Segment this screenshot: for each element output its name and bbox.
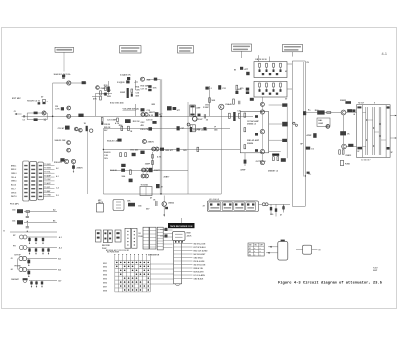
- svg-text:C60: C60: [270, 214, 273, 216]
- transistor Q17: [260, 129, 264, 133]
- marks below Q23: [165, 207, 168, 209]
- wire ladder2 to bus: [287, 88, 292, 90]
- svg-text:MON B-GRY: MON B-GRY: [194, 271, 205, 273]
- tall rect top edge y61: [292, 60, 305, 62]
- svg-text:o: o: [254, 248, 255, 250]
- ferrite bead blob: [82, 81, 86, 84]
- svg-text:30: 30: [206, 119, 209, 121]
- tall rect inner line x303.4: [302, 62, 304, 177]
- svg-text:47MF: 47MF: [306, 134, 312, 137]
- transistor Q4c: [67, 148, 71, 152]
- blob row y128: [148, 127, 152, 130]
- svg-text:S2: S2: [138, 233, 140, 235]
- svg-text:1K: 1K: [109, 90, 112, 92]
- svg-text:SU4-30 10K: SU4-30 10K: [55, 139, 67, 142]
- stub Q23 to black box: [181, 218, 183, 223]
- bat row wire: [29, 280, 57, 282]
- transistor Q5a top: [141, 77, 145, 81]
- wire bridge bottom branch: [27, 119, 47, 121]
- transistor Q18: [260, 149, 264, 153]
- ladder2 inner bottom bars: [262, 93, 264, 95]
- components x235 top: [236, 85, 238, 90]
- svg-text:REC OUT A-RED: REC OUT A-RED: [194, 249, 209, 252]
- capacitor C34: [203, 114, 205, 118]
- svg-text:2SB: 2SB: [107, 96, 111, 98]
- svg-text:CAR BAT: CAR BAT: [11, 278, 20, 281]
- wire x343 vertical: [343, 115, 345, 144]
- svg-text:4.7K: 4.7K: [157, 156, 162, 159]
- svg-text:1K5: 1K5: [183, 150, 188, 152]
- small circle junction x188: [187, 123, 190, 126]
- ladder1 inner bottom bars: [262, 73, 264, 75]
- AF interior comps near Q18: [255, 149, 258, 152]
- module 1: [209, 202, 221, 211]
- battery pin 1: [268, 246, 278, 248]
- svg-text:PHONE: PHONE: [15, 265, 22, 267]
- connector J2 row 4: [174, 253, 182, 255]
- svg-text:6V: 6V: [285, 71, 288, 73]
- comp top mic amp: [127, 77, 130, 80]
- svg-text:50V: 50V: [104, 130, 108, 132]
- junction dot x103-y149: [103, 149, 104, 150]
- svg-text:TO AMP: TO AMP: [44, 174, 51, 177]
- resistor R2 bottom branch: [34, 118, 38, 121]
- svg-text:JACK: JACK: [187, 235, 193, 238]
- comp x168 y106 dark: [167, 106, 172, 110]
- S5 inner line: [157, 246, 163, 248]
- row y247 wire: [27, 247, 57, 249]
- svg-text:TO SW2: TO SW2: [44, 168, 50, 170]
- capacitor C1: [23, 115, 25, 117]
- AF box left components: [244, 113, 246, 117]
- end component row y149: [197, 147, 199, 151]
- wire y128.5 row: [103, 128, 230, 130]
- svg-text:GRY-8: GRY-8: [11, 192, 16, 194]
- connector J2 row 2: [174, 246, 182, 248]
- svg-text:C23 30: C23 30: [146, 120, 153, 122]
- svg-text:R22 1K: R22 1K: [133, 121, 140, 123]
- svg-text:455: 455: [214, 128, 218, 131]
- svg-text:A-1: A-1: [56, 175, 59, 178]
- wire center vertical bus x161.8: [161, 79, 163, 194]
- svg-text:DB 10 20 30: DB 10 20 30: [255, 59, 267, 61]
- connector P1 column C: [38, 162, 44, 200]
- svg-text:B52 477: B52 477: [166, 149, 174, 152]
- switch pair S2a: [103, 230, 107, 243]
- row y247 hanging comp 3: [42, 248, 44, 253]
- comps x120 y154: [120, 153, 122, 157]
- row y211 wire: [24, 211, 57, 213]
- block label LOW PASS RF DRIVE: [283, 44, 303, 51]
- svg-text:SU4: SU4: [146, 78, 151, 81]
- svg-text:GND B-BLK: GND B-BLK: [194, 278, 205, 280]
- black label box TAPE: [168, 223, 195, 228]
- aux row 2 hanging comp: [28, 270, 30, 276]
- row y211 comp: [26, 211, 30, 213]
- svg-text:1.5K: 1.5K: [104, 155, 109, 157]
- ladder2 resistor 2: [266, 83, 268, 87]
- comp left of module 1: [160, 229, 165, 231]
- junction dot bus-y116: [52, 116, 54, 118]
- svg-text:FUSE: FUSE: [345, 163, 351, 165]
- svg-text:S2: S2: [249, 251, 251, 253]
- svg-text:C50: C50: [12, 210, 15, 212]
- transistor pair Q6 Q7: [141, 113, 145, 117]
- svg-text:B1 B2 A1 A2 C1 C2 D1 D2 E1: B1 B2 A1 A2 C1 C2 D1 D2 E1: [106, 249, 129, 252]
- resistor stack below2: [152, 161, 154, 165]
- wire x87.5 vertical: [87, 129, 89, 195]
- svg-text:TAPE RECORDER CON: TAPE RECORDER CON: [170, 225, 193, 228]
- svg-text:EXT MIC: EXT MIC: [12, 98, 21, 100]
- arrow right y115: [390, 115, 395, 117]
- svg-text:S2 FUNCTION: S2 FUNCTION: [107, 252, 120, 254]
- arrow right y138: [390, 137, 395, 139]
- switch pair S3a: [125, 228, 131, 248]
- wire x110 stub: [108, 81, 110, 95]
- blob on wire x198: [198, 114, 201, 117]
- resistor R61: [327, 112, 331, 114]
- aux row 1 wire: [27, 258, 57, 260]
- svg-text:56K: 56K: [212, 100, 216, 102]
- svg-text:VOLUME 50K(A): VOLUME 50K(A): [123, 107, 139, 110]
- jack square pins: [296, 249, 303, 251]
- ladder filter box 2: [254, 81, 287, 97]
- winding pair 2: [372, 107, 374, 155]
- connector J2 row 11: [174, 278, 182, 280]
- comps below Q22: [339, 150, 341, 154]
- component cross mark: [44, 118, 46, 121]
- svg-text:4T: 4T: [203, 204, 206, 207]
- junction dot x160-y116: [160, 116, 162, 118]
- wire small box top y93.6: [95, 93, 112, 95]
- svg-text:T4 OUT: T4 OUT: [358, 101, 365, 104]
- svg-text:ATT: ATT: [244, 68, 249, 71]
- svg-text:C12 47: C12 47: [58, 127, 66, 130]
- aux row 1 hanging comp: [28, 259, 30, 265]
- blob x122 y164: [121, 164, 125, 167]
- svg-text:C-4: C-4: [56, 187, 59, 190]
- AF right edge components r3: [282, 139, 287, 142]
- svg-text:SU4-30: SU4-30: [104, 151, 110, 154]
- svg-text:R29 1K: R29 1K: [104, 127, 111, 129]
- svg-text:T5 600Ω: T5 600Ω: [141, 184, 149, 186]
- svg-text:47: 47: [161, 186, 163, 189]
- transistor Q3c: [79, 128, 83, 132]
- S5 inner line: [157, 232, 163, 234]
- transistor Q3b: [74, 127, 78, 131]
- resistor R25: [128, 126, 130, 130]
- small circle x91 y130: [90, 129, 93, 132]
- svg-text:x: x: [260, 254, 261, 256]
- svg-text:S3 MONITOR: S3 MONITOR: [148, 255, 160, 257]
- transformer T2 small: [190, 125, 195, 132]
- ladder filter box 1: [254, 62, 287, 78]
- svg-text:30MF: 30MF: [145, 164, 151, 166]
- small rect below Q22: [340, 160, 343, 165]
- svg-text:L2 L3 L4 L5: L2 L3 L4 L5: [209, 198, 219, 201]
- block label 1st AMPLIFIER ATTENUATOR: [232, 44, 252, 51]
- ladder1 resistor 2: [266, 63, 268, 67]
- transformer right divider: [385, 105, 387, 158]
- switch pair S4a: [143, 227, 149, 249]
- svg-text:SU4-30: SU4-30: [110, 169, 118, 172]
- S5 inner line: [157, 243, 163, 245]
- wire x152.5 vertical: [152, 152, 154, 168]
- blob row y159: [60, 158, 64, 161]
- svg-text:B52: B52: [152, 104, 155, 106]
- svg-text:600Ω: 600Ω: [318, 123, 323, 125]
- aux row 1 jack circles: [19, 256, 23, 260]
- balance box: [317, 118, 330, 126]
- transformer left divider: [362, 105, 364, 158]
- blob right of Q11: [149, 168, 153, 172]
- rounded module mic: [113, 200, 124, 211]
- svg-text:SW7: SW7: [103, 286, 107, 288]
- transistor Q22: [342, 144, 347, 149]
- wire y112.5 right: [305, 112, 341, 114]
- wire y79.3 top link: [147, 78, 160, 80]
- wire main input bus y116: [22, 115, 253, 117]
- loop bottom edge: [292, 205, 305, 207]
- wire x103.4 left rail: [102, 129, 104, 195]
- S5 inner line: [157, 237, 163, 239]
- svg-text:477: 477: [177, 109, 180, 112]
- svg-text:L1: L1: [209, 88, 212, 90]
- row y247 circle pair: [19, 246, 23, 250]
- electrolytic C13 column: [127, 88, 129, 98]
- svg-text:2SB32: 2SB32: [168, 203, 174, 205]
- comps above AF box: [233, 99, 235, 104]
- transistor stage above T5: [141, 174, 145, 178]
- battery cell: [278, 241, 288, 260]
- bar comp x86 y126: [86, 126, 88, 131]
- input jack arrow: [17, 113, 22, 115]
- svg-text:TO VOL: TO VOL: [44, 172, 50, 174]
- transformer T5 on y194: [140, 187, 152, 196]
- right comps vertical link: [286, 107, 288, 158]
- comp stack x104 y93: [104, 93, 107, 96]
- switch column S5: [157, 227, 163, 250]
- svg-text:50V: 50V: [146, 209, 150, 211]
- S4 inner line: [143, 236, 149, 238]
- svg-text:SW2: SW2: [103, 267, 107, 269]
- connector J2 row 9: [174, 271, 182, 273]
- bars below x190: [190, 127, 192, 132]
- svg-text:B 52 OSC 455: B 52 OSC 455: [110, 102, 124, 105]
- bat row hanging comps: [31, 281, 33, 286]
- svg-text:1K: 1K: [130, 131, 133, 133]
- svg-text:TO SP1: TO SP1: [44, 187, 50, 189]
- svg-text:YEL-4: YEL-4: [11, 176, 16, 179]
- comp left of module 2: [160, 235, 165, 237]
- svg-text:TO BAT: TO BAT: [44, 190, 51, 193]
- resistor R33 above Q13: [209, 98, 211, 103]
- svg-text:SU4: SU4: [122, 175, 127, 178]
- stub label E down: [292, 52, 294, 57]
- blob row y140: [117, 139, 121, 142]
- row y222 wire: [24, 222, 57, 224]
- connector J2 row 5: [174, 257, 182, 259]
- svg-text:REM A-YEL: REM A-YEL: [194, 267, 204, 270]
- resistor dark mic row: [128, 203, 135, 207]
- resistor R1 top branch: [34, 112, 38, 115]
- svg-text:455: 455: [141, 124, 144, 127]
- S3 inner dots: [127, 241, 128, 242]
- row y237 hanging comp 3: [42, 237, 44, 242]
- connector P1 column A: [23, 161, 29, 201]
- resistor R12: [100, 96, 102, 100]
- aux row 2 jack circles: [19, 267, 23, 271]
- svg-text:S3: S3: [249, 254, 251, 256]
- svg-text:x: x: [254, 251, 255, 253]
- svg-text:BLU-6: BLU-6: [11, 185, 16, 187]
- svg-text:OSC 455: OSC 455: [130, 149, 139, 152]
- svg-text:4-1: 4-1: [382, 52, 388, 56]
- svg-text:B-1: B-1: [58, 258, 61, 260]
- svg-text:OUTPUT 8: OUTPUT 8: [256, 161, 267, 163]
- resistor dark R60: [317, 110, 324, 114]
- text right of Q20: [347, 109, 352, 112]
- blob x141 y151: [140, 151, 144, 154]
- svg-text:SW 4T A-COM: SW 4T A-COM: [194, 242, 206, 245]
- svg-text:JACK: JACK: [98, 201, 104, 204]
- svg-text:2SB77: 2SB77: [154, 170, 161, 172]
- svg-text:SW1: SW1: [103, 263, 107, 265]
- S3 inner dots: [127, 244, 128, 245]
- svg-text:J4: J4: [11, 268, 13, 271]
- junction blobs on bus: [303, 111, 306, 115]
- svg-text:ANT: ANT: [196, 107, 201, 110]
- matrix top stubs: [114, 255, 116, 260]
- svg-text:2SB75: 2SB75: [77, 168, 84, 170]
- wire x245 bottom stub: [244, 153, 246, 166]
- cap pair mic row: [155, 201, 157, 206]
- svg-text:C55: C55: [138, 205, 141, 207]
- wire Q20 to block: [346, 112, 357, 114]
- svg-text:3.5(2)05 1K: 3.5(2)05 1K: [120, 75, 131, 77]
- svg-text:SP: SP: [391, 152, 394, 154]
- capacitor C3 blob: [38, 102, 41, 104]
- svg-text:SW5: SW5: [103, 279, 107, 281]
- block label ANT COIL SWITCH: [178, 46, 194, 53]
- svg-text:A-1: A-1: [59, 236, 62, 239]
- connector J2 row 7: [174, 264, 182, 266]
- S4 inner line: [143, 233, 149, 235]
- components x218 top: [218, 85, 221, 89]
- svg-text:SW8: SW8: [103, 290, 107, 292]
- svg-text:C15: C15: [136, 93, 141, 95]
- comp x172 y110: [173, 107, 177, 110]
- matrix to connector links: [150, 263, 173, 265]
- components hanging x228: [229, 113, 231, 118]
- S4 inner line: [143, 230, 149, 232]
- REM module pins: [175, 241, 176, 243]
- svg-text:SP: SP: [300, 144, 303, 146]
- battery pin 2: [266, 252, 278, 254]
- winding taps dots: [366, 119, 367, 120]
- svg-text:SP: SP: [357, 151, 360, 153]
- svg-text:BAL: BAL: [318, 119, 323, 122]
- blob on y79 wire: [154, 78, 157, 81]
- svg-text:A-2: A-2: [59, 246, 62, 249]
- svg-text:1K: 1K: [347, 134, 350, 136]
- row y247 hanging comp 1: [29, 248, 31, 253]
- bat row comp circles: [23, 279, 27, 283]
- connector J2 row 6: [174, 260, 182, 262]
- svg-text:2SA49: 2SA49: [225, 103, 232, 106]
- tall rect right edge x305.3: [304, 61, 306, 206]
- components x205 top cluster: [205, 87, 208, 90]
- svg-text:J1: J1: [14, 111, 17, 113]
- AF interior comps near Q16: [255, 115, 258, 118]
- connector J2 column: [174, 241, 182, 284]
- svg-text:WHT-9: WHT-9: [11, 196, 16, 198]
- AF inner vertical link: [261, 106, 263, 110]
- arrow below Q23: [163, 206, 165, 214]
- row y128 far comps: [177, 126, 180, 130]
- wire top horizontal y83: [53, 82, 87, 84]
- transistor Q23 big: [162, 202, 166, 206]
- REM jack module: [173, 232, 186, 241]
- svg-text:C28 30: C28 30: [104, 124, 110, 126]
- AF right edge components r1: [282, 103, 287, 106]
- comps left of stage: [129, 179, 133, 183]
- wires box to right comps: [269, 104, 283, 106]
- S4 inner line: [143, 243, 149, 245]
- legend table: [248, 243, 264, 256]
- text right of Q22 dark: [348, 144, 353, 147]
- wire x95.3 vertical: [94, 94, 96, 117]
- svg-text:o: o: [254, 254, 255, 256]
- transistor Q19 below box: [260, 161, 264, 165]
- svg-text:C33 47: C33 47: [196, 118, 203, 121]
- svg-text:B1: B1: [53, 221, 55, 223]
- svg-text:2SB56: 2SB56: [247, 143, 254, 145]
- svg-text:R18 47K: R18 47K: [54, 161, 62, 164]
- svg-text:S1: S1: [249, 248, 251, 250]
- svg-text:R14: R14: [136, 86, 141, 89]
- components below AF box: [273, 157, 275, 161]
- svg-text:0V: 0V: [285, 99, 288, 101]
- svg-text:SW6: SW6: [103, 283, 107, 285]
- svg-text:REM: REM: [187, 232, 191, 234]
- diode matrix grid: [114, 260, 116, 292]
- svg-text:0.5: 0.5: [311, 149, 314, 151]
- component C14: [131, 89, 133, 92]
- component small: [176, 148, 179, 152]
- component blob pair: [65, 126, 70, 130]
- electrolytic C4: [43, 99, 46, 104]
- dark bar x234: [233, 112, 235, 121]
- modules outer box: [207, 201, 258, 212]
- ladder1 resistor 4: [280, 63, 282, 67]
- capacitor C6: [62, 75, 65, 78]
- resistor R11: [100, 91, 102, 95]
- svg-text:TO SW1: TO SW1: [44, 164, 50, 166]
- svg-text:OFF: OFF: [260, 245, 263, 247]
- svg-text:RED-2: RED-2: [11, 169, 16, 171]
- switch rect S1 left edge: [96, 230, 102, 242]
- ladder1 resistor 1: [259, 63, 261, 67]
- block label MIC SUB ASSY: [55, 47, 74, 52]
- svg-text:E: E: [4, 230, 6, 232]
- svg-text:MIC IN B-WHT: MIC IN B-WHT: [194, 254, 207, 256]
- winding tap stubs: [363, 112, 366, 114]
- svg-text:2SB33: 2SB33: [345, 155, 351, 157]
- transistor Q3: [67, 106, 71, 110]
- row y222 stub cap: [26, 223, 28, 227]
- svg-text:IN: IN: [234, 70, 237, 72]
